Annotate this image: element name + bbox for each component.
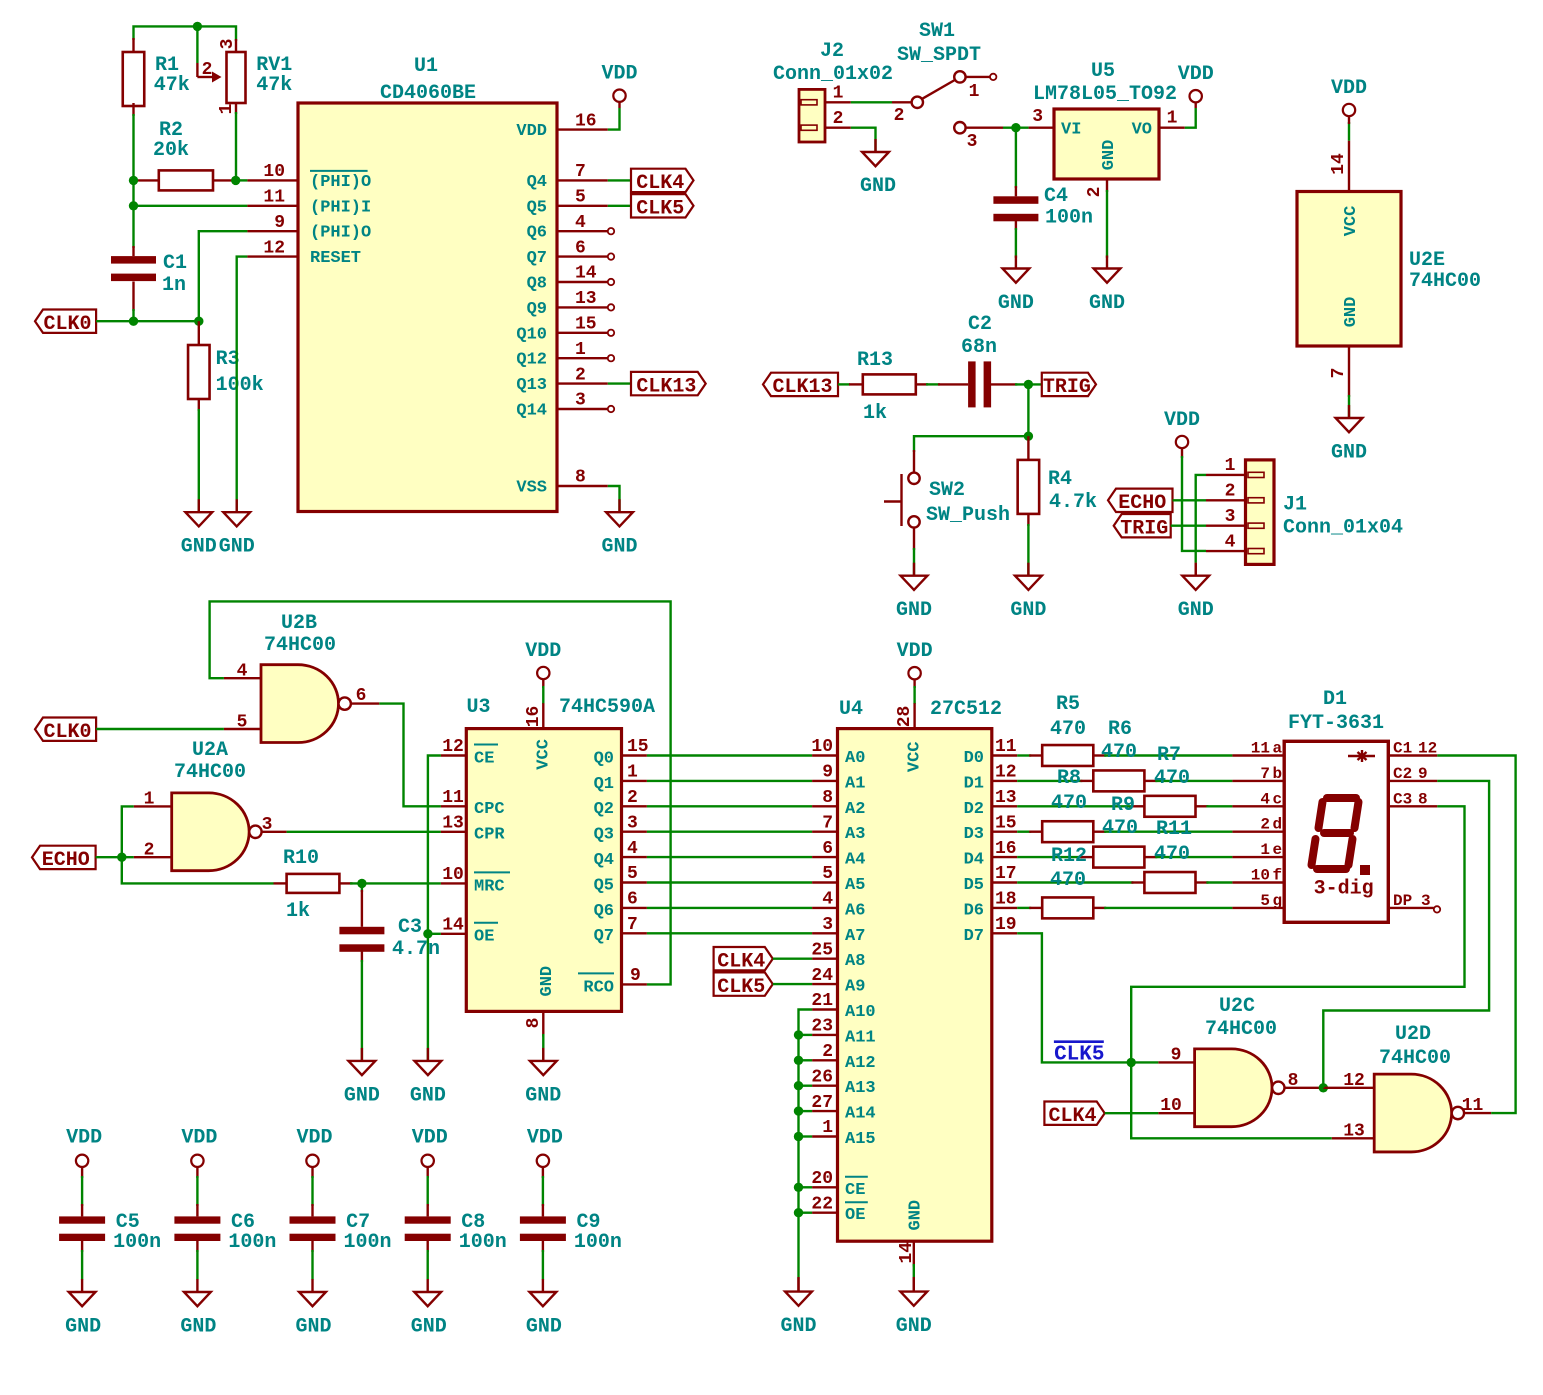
svg-text:17: 17 <box>995 864 1017 884</box>
svg-text:74HC00: 74HC00 <box>174 761 246 784</box>
wire A10-A15/CE/OE tie-down <box>799 1010 813 1279</box>
svg-text:7: 7 <box>1329 368 1349 379</box>
svg-text:GND: GND <box>896 599 932 622</box>
svg-text:Q0: Q0 <box>594 749 614 768</box>
power VDD J1 <box>1176 436 1188 448</box>
svg-text:U2D: U2D <box>1395 1023 1431 1046</box>
wire VSS to GND <box>608 486 620 512</box>
U4 left pins <box>812 754 837 756</box>
svg-text:8: 8 <box>524 1018 544 1029</box>
wire U2A out to U3 CPR <box>287 831 441 833</box>
power VDD U1 <box>608 108 620 130</box>
ground C7 <box>311 1279 313 1292</box>
svg-text:A5: A5 <box>845 876 865 895</box>
D1 DP pin <box>1388 907 1434 909</box>
svg-text:OE: OE <box>474 928 494 947</box>
ground C3 <box>361 1048 363 1061</box>
wire D3 to R8 <box>1017 831 1031 833</box>
svg-text:470: 470 <box>1102 817 1138 840</box>
ic U1 CD4060BE body <box>298 103 557 512</box>
wire CLK13 to R13 <box>838 383 850 385</box>
svg-text:GND: GND <box>1331 441 1367 464</box>
svg-text:SW_Push: SW_Push <box>926 504 1010 527</box>
resistor R12 <box>1029 907 1042 909</box>
svg-text:10: 10 <box>1160 1096 1182 1116</box>
connector J1 body <box>1246 460 1275 565</box>
svg-text:A8: A8 <box>845 952 865 971</box>
ground U2E <box>1348 405 1350 418</box>
svg-text:U2A: U2A <box>192 739 228 762</box>
svg-text:5: 5 <box>575 187 586 207</box>
svg-text:5: 5 <box>627 864 638 884</box>
svg-text:SW_SPDT: SW_SPDT <box>897 44 981 67</box>
svg-text:Q3: Q3 <box>594 826 614 845</box>
junction U2C out <box>1319 1083 1328 1092</box>
svg-text:14: 14 <box>575 264 597 284</box>
ground U3 <box>542 1048 544 1061</box>
svg-text:7: 7 <box>627 915 638 935</box>
junction C3 top <box>357 879 366 888</box>
svg-text:A0: A0 <box>845 749 865 768</box>
svg-text:C3: C3 <box>1393 790 1412 808</box>
wire RV1 to pin10 row <box>235 112 237 180</box>
wire pin11 <box>134 205 248 207</box>
capacitor C6 <box>174 1216 220 1223</box>
svg-text:6: 6 <box>356 686 367 706</box>
wire C5 bottom <box>81 1241 83 1252</box>
svg-text:D7: D7 <box>964 927 984 946</box>
wire C1 net <box>1437 756 1515 1114</box>
ground U1 VSS <box>618 499 620 512</box>
svg-text:GND: GND <box>780 1315 816 1338</box>
global label CLK5 (U1) <box>608 205 631 207</box>
svg-text:GND: GND <box>538 966 557 997</box>
U2E pin 7 GND <box>1348 346 1350 397</box>
svg-text:VCC: VCC <box>535 739 554 770</box>
svg-text:A14: A14 <box>845 1105 876 1124</box>
svg-text:8: 8 <box>822 788 833 808</box>
resistor R9 <box>1080 856 1093 858</box>
svg-text:VCC: VCC <box>1342 206 1361 237</box>
svg-text:1: 1 <box>217 103 237 114</box>
svg-text:5: 5 <box>822 864 833 884</box>
svg-text:23: 23 <box>811 1017 833 1037</box>
svg-text:3: 3 <box>262 815 273 835</box>
wire D5 to R11 <box>1017 881 1133 883</box>
nand gate U2B 74HC00 <box>261 665 339 743</box>
svg-text:1: 1 <box>627 763 638 783</box>
svg-text:470: 470 <box>1050 718 1086 741</box>
svg-text:2: 2 <box>1260 816 1270 834</box>
svg-text:13: 13 <box>995 788 1017 808</box>
svg-text:Q9: Q9 <box>527 300 547 319</box>
svg-text:1k: 1k <box>863 402 887 425</box>
resistor R13 <box>849 383 863 385</box>
junction CLK0/R3 <box>194 317 203 326</box>
svg-text:U4: U4 <box>839 698 863 721</box>
svg-text:11: 11 <box>1251 740 1270 758</box>
wire R10 to MRC <box>350 882 441 884</box>
svg-text:J2: J2 <box>820 40 844 63</box>
global label ECHO <box>1108 489 1173 512</box>
power VDD U5 <box>1185 108 1196 128</box>
svg-text:R9: R9 <box>1111 794 1135 817</box>
junction R2 left <box>129 176 138 185</box>
wire pin9 riser <box>199 231 248 321</box>
svg-text:4: 4 <box>627 839 638 859</box>
svg-text:11: 11 <box>1462 1096 1484 1116</box>
ground J2 <box>874 139 876 152</box>
svg-text:R8: R8 <box>1057 767 1081 790</box>
svg-text:c: c <box>1273 790 1283 808</box>
junction pin11 branch <box>129 201 138 210</box>
svg-text:4: 4 <box>237 662 248 682</box>
svg-text:Q1: Q1 <box>594 775 614 794</box>
wire pin10 <box>236 179 248 181</box>
nand gate U2C 74HC00 <box>1195 1049 1272 1127</box>
svg-text:GND: GND <box>907 1200 926 1231</box>
svg-text:25: 25 <box>811 940 833 960</box>
U4 right pins D0-D7 <box>992 754 1017 756</box>
svg-text:15: 15 <box>995 813 1017 833</box>
wire VDD-top net R1/RV1 <box>134 26 237 41</box>
svg-text:CLK13: CLK13 <box>636 375 696 398</box>
power VDD U4 <box>908 667 920 679</box>
svg-text:GND: GND <box>65 1316 101 1339</box>
U5 GND pin <box>1106 179 1108 192</box>
wire ECHO to J1 pin2 <box>1173 499 1207 501</box>
svg-text:2: 2 <box>894 106 905 126</box>
capacitor C9 <box>520 1216 566 1223</box>
resistor R10 <box>274 882 287 884</box>
svg-text:R5: R5 <box>1056 693 1080 716</box>
U3 pin16 VCC <box>542 703 544 728</box>
svg-text:OE: OE <box>845 1206 865 1225</box>
svg-text:15: 15 <box>627 737 649 757</box>
J2 pins <box>825 101 851 103</box>
ground C9 <box>542 1279 544 1292</box>
svg-text:100n: 100n <box>459 1231 507 1254</box>
wire R6 to D1 <box>1155 780 1232 782</box>
wire R5 to D1 <box>1104 754 1232 756</box>
svg-text:U1: U1 <box>414 55 438 78</box>
svg-text:10: 10 <box>442 865 464 885</box>
wire U2B out to U3 CPC <box>379 704 441 807</box>
U3 GND pin8 <box>542 1011 544 1036</box>
wire D4 to R9 <box>1017 856 1082 858</box>
svg-text:2: 2 <box>202 60 213 80</box>
svg-text:GND: GND <box>525 1084 561 1107</box>
svg-text:GND: GND <box>1089 292 1125 315</box>
svg-text:16: 16 <box>575 111 597 131</box>
svg-text:1: 1 <box>822 1118 833 1138</box>
ground R4 <box>1027 563 1029 576</box>
svg-text:VDD: VDD <box>1164 409 1200 432</box>
svg-text:VDD: VDD <box>66 1127 102 1150</box>
svg-text:Conn_01x04: Conn_01x04 <box>1283 516 1403 539</box>
svg-text:D4: D4 <box>964 851 984 870</box>
svg-text:Q14: Q14 <box>516 402 547 421</box>
ground U5 <box>1106 256 1108 269</box>
U2C pin9 <box>1158 1061 1194 1063</box>
svg-text:7: 7 <box>575 162 586 182</box>
junction ECHO <box>117 853 126 862</box>
svg-text:1: 1 <box>144 790 155 810</box>
svg-text:27C512: 27C512 <box>930 698 1002 721</box>
svg-text:A3: A3 <box>845 825 865 844</box>
svg-text:GND: GND <box>180 1316 216 1339</box>
svg-text:74HC00: 74HC00 <box>264 634 336 657</box>
svg-text:CLK13: CLK13 <box>772 376 832 399</box>
capacitor C2 <box>938 383 968 385</box>
svg-text:3-dig: 3-dig <box>1314 878 1374 901</box>
svg-text:GND: GND <box>219 536 255 559</box>
svg-text:Q6: Q6 <box>527 224 547 243</box>
junction CLK0/C1 <box>129 317 138 326</box>
svg-text:A2: A2 <box>845 800 865 819</box>
resistor R1 <box>132 38 134 52</box>
svg-text:12: 12 <box>442 737 464 757</box>
ic U4 27C512 body <box>838 729 992 1242</box>
svg-text:CLK0: CLK0 <box>44 721 92 744</box>
svg-text:8: 8 <box>575 468 586 488</box>
wire TRIG to J1 pin3 <box>1171 525 1206 527</box>
svg-text:Q10: Q10 <box>516 325 547 344</box>
svg-text:GND: GND <box>526 1316 562 1339</box>
wire R3 to GND <box>198 409 200 512</box>
wires Q0-Q7 to U4 A0-A7 <box>647 754 812 756</box>
wire R11 to D1 <box>1206 881 1232 883</box>
svg-text:19: 19 <box>995 915 1017 935</box>
svg-text:GND: GND <box>1100 140 1119 171</box>
svg-text:A1: A1 <box>845 774 865 793</box>
svg-text:RESET: RESET <box>310 249 361 268</box>
svg-text:C2: C2 <box>968 313 992 336</box>
svg-text:470: 470 <box>1051 792 1087 815</box>
U4 OE pin <box>812 1211 837 1213</box>
svg-text:e: e <box>1273 841 1283 859</box>
wire C6 top <box>196 1176 198 1206</box>
U4 GND pin14 <box>913 1241 915 1266</box>
svg-text:8: 8 <box>1288 1071 1299 1091</box>
svg-text:1: 1 <box>1260 841 1270 859</box>
display D1 FYT-3631 body <box>1284 741 1388 922</box>
D1 led polarity mark <box>1348 755 1375 757</box>
svg-text:R11: R11 <box>1156 818 1192 841</box>
svg-text:12: 12 <box>263 238 285 258</box>
svg-text:Q6: Q6 <box>594 902 614 921</box>
wire C9 bottom <box>542 1241 544 1252</box>
svg-text:Conn_01x02: Conn_01x02 <box>773 63 893 86</box>
svg-text:20: 20 <box>811 1169 833 1189</box>
junction wiper tap <box>193 22 202 31</box>
wire pin12 to GND <box>237 257 248 513</box>
svg-text:VDD: VDD <box>516 122 547 141</box>
svg-text:74HC590A: 74HC590A <box>559 696 655 719</box>
svg-text:ECHO: ECHO <box>42 849 90 872</box>
svg-text:VDD: VDD <box>527 1127 563 1150</box>
svg-text:(PHI)O: (PHI)O <box>310 173 371 192</box>
wire R12 to D1 <box>1104 907 1232 909</box>
svg-text:1: 1 <box>833 84 844 104</box>
svg-text:26: 26 <box>811 1067 833 1087</box>
svg-text:13: 13 <box>1343 1122 1365 1142</box>
svg-text:a: a <box>1273 740 1283 758</box>
svg-text:TRIG: TRIG <box>1120 517 1168 540</box>
svg-text:Q2: Q2 <box>594 800 614 819</box>
global label TRIG (top) <box>1042 373 1096 396</box>
svg-text:VDD: VDD <box>181 1127 217 1150</box>
svg-text:20k: 20k <box>153 139 189 162</box>
svg-text:U3: U3 <box>466 696 490 719</box>
svg-text:7: 7 <box>1260 765 1270 783</box>
svg-text:6: 6 <box>627 890 638 910</box>
U1 right pins <box>557 128 608 130</box>
svg-text:5: 5 <box>1260 892 1270 910</box>
svg-text:J1: J1 <box>1283 494 1307 517</box>
svg-text:6: 6 <box>822 839 833 859</box>
svg-text:9: 9 <box>1171 1046 1182 1066</box>
svg-text:18: 18 <box>995 890 1017 910</box>
svg-text:14: 14 <box>897 1242 917 1264</box>
wire R8 to D1 <box>1104 831 1232 833</box>
svg-text:100k: 100k <box>216 374 264 397</box>
svg-text:C1: C1 <box>163 252 187 275</box>
svg-text:2: 2 <box>1225 481 1236 501</box>
U1 left pins <box>247 179 298 181</box>
svg-text:C1: C1 <box>1393 740 1412 758</box>
U2B pin4 <box>224 677 261 679</box>
svg-text:A15: A15 <box>845 1130 876 1149</box>
svg-text:D1: D1 <box>964 774 984 793</box>
U2C output pin8 <box>1285 1087 1324 1089</box>
svg-text:D1: D1 <box>1323 688 1347 711</box>
svg-text:Q5: Q5 <box>594 876 614 895</box>
svg-text:14: 14 <box>442 915 464 935</box>
regulator U5 LM78L05_TO92 body <box>1054 109 1159 179</box>
U2A output pin3 <box>262 831 287 833</box>
wire C5 top <box>81 1176 83 1206</box>
svg-text:470: 470 <box>1154 843 1190 866</box>
wire D0 to R5 <box>1017 754 1031 756</box>
U4 CE pin <box>812 1186 837 1188</box>
svg-text:R12: R12 <box>1051 845 1087 868</box>
svg-text:U5: U5 <box>1091 60 1115 83</box>
svg-text:GND: GND <box>1010 599 1046 622</box>
svg-text:D6: D6 <box>964 901 984 920</box>
svg-text:16: 16 <box>524 706 544 728</box>
svg-text:1: 1 <box>575 340 586 360</box>
svg-text:GND: GND <box>181 536 217 559</box>
resistor R11 <box>1131 881 1144 883</box>
svg-text:12: 12 <box>995 763 1017 783</box>
global label ECHO (U2A) <box>32 846 96 869</box>
power VDD U3 <box>537 667 549 679</box>
svg-text:A11: A11 <box>845 1028 876 1047</box>
ground U4 <box>913 1279 915 1292</box>
wire J2 pin2 to GND <box>851 128 876 152</box>
svg-text:47k: 47k <box>154 74 190 97</box>
wire C4 top <box>1015 128 1017 188</box>
svg-text:D5: D5 <box>964 876 984 895</box>
ground C4 <box>1015 256 1017 269</box>
svg-text:GND: GND <box>410 1084 446 1107</box>
svg-text:MRC: MRC <box>474 877 505 896</box>
wire C2 net <box>1323 781 1489 1088</box>
wire D2 to R7 <box>1017 805 1133 807</box>
resistor R2 <box>136 179 159 181</box>
svg-text:CPC: CPC <box>474 800 505 819</box>
J1 pins <box>1206 474 1246 476</box>
svg-text:24: 24 <box>811 966 833 986</box>
U3 right pins Q0-Q7 <box>622 754 647 756</box>
wire to SW2 <box>914 436 1028 452</box>
svg-text:3: 3 <box>967 132 978 152</box>
svg-text:D3: D3 <box>964 825 984 844</box>
U2C pin10 <box>1158 1112 1194 1114</box>
svg-text:R10: R10 <box>283 847 319 870</box>
svg-text:10: 10 <box>263 162 285 182</box>
svg-text:VDD: VDD <box>296 1127 332 1150</box>
ground pin12 <box>235 499 237 512</box>
U2A pin2 <box>134 856 172 858</box>
svg-text:Q13: Q13 <box>516 376 547 395</box>
svg-text:74HC00: 74HC00 <box>1379 1047 1451 1070</box>
svg-text:R6: R6 <box>1108 718 1132 741</box>
svg-text:100n: 100n <box>228 1231 276 1254</box>
svg-text:d: d <box>1273 816 1283 834</box>
svg-text:VDD: VDD <box>412 1127 448 1150</box>
wire C7 top <box>311 1176 313 1206</box>
svg-text:Q7: Q7 <box>527 249 547 268</box>
ground C8 <box>427 1279 429 1292</box>
svg-text:100n: 100n <box>574 1231 622 1254</box>
wire pin13 link <box>1131 1062 1332 1138</box>
svg-text:100n: 100n <box>1045 206 1093 229</box>
local label CLK5bar <box>1054 1040 1104 1043</box>
svg-text:8: 8 <box>1418 790 1428 808</box>
svg-text:R4: R4 <box>1048 468 1072 491</box>
ground C5 <box>81 1279 83 1292</box>
svg-text:470: 470 <box>1154 767 1190 790</box>
svg-text:VCC: VCC <box>906 741 925 772</box>
capacitor C5 <box>59 1216 105 1223</box>
U2B pin5 <box>224 728 261 730</box>
svg-text:Q5: Q5 <box>527 198 547 217</box>
svg-text:SW1: SW1 <box>919 20 955 43</box>
svg-text:11: 11 <box>442 788 464 808</box>
svg-text:1: 1 <box>1225 456 1236 476</box>
wire R4 to GND <box>1027 524 1029 576</box>
U3 left pins <box>441 754 466 756</box>
svg-text:2: 2 <box>1085 187 1105 198</box>
wire C2 to TRIG <box>1015 383 1042 385</box>
wire RCO feedback to pin4 <box>210 601 671 984</box>
wire CLK4 to pin10 <box>1105 1112 1159 1114</box>
wire CE/OE tie-down <box>428 756 441 1061</box>
svg-text:CLK0: CLK0 <box>44 313 92 336</box>
svg-text:GND: GND <box>896 1315 932 1338</box>
svg-text:CLK4: CLK4 <box>636 172 684 195</box>
wire SW2 to GND <box>913 528 915 550</box>
svg-text:470: 470 <box>1050 869 1086 892</box>
svg-text:CLK5: CLK5 <box>717 976 765 999</box>
svg-text:10: 10 <box>1251 867 1270 885</box>
U2E pin 14 VCC <box>1348 141 1350 192</box>
svg-text:11: 11 <box>995 737 1017 757</box>
potentiometer RV1 <box>235 39 237 52</box>
global label CLK4 (U2C) <box>1044 1102 1104 1125</box>
